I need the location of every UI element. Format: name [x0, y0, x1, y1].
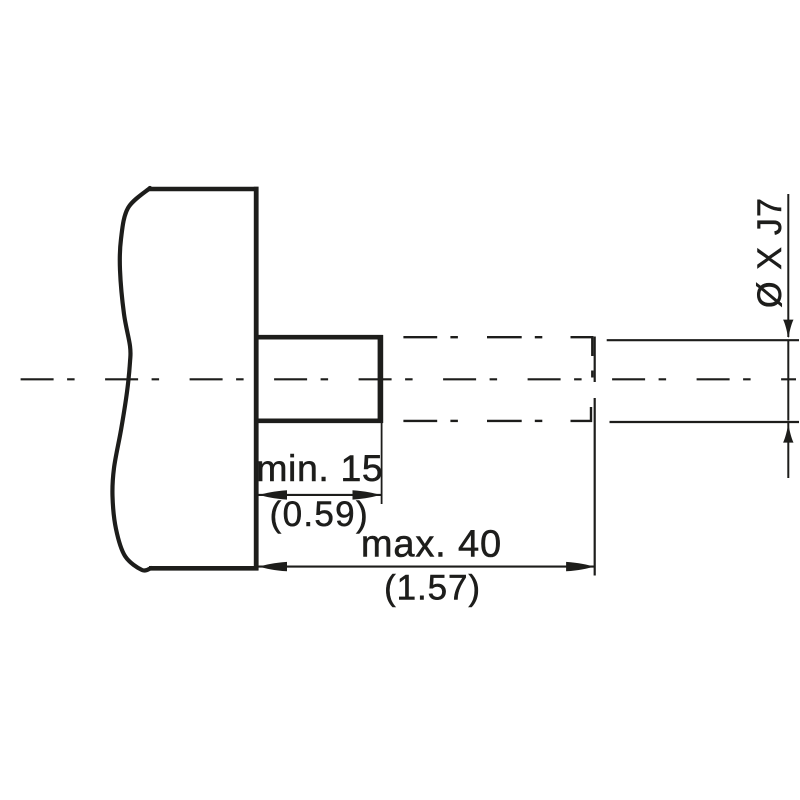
svg-text:(1.57): (1.57) [384, 569, 481, 608]
svg-text:Ø X J7: Ø X J7 [751, 197, 789, 308]
svg-text:max. 40: max. 40 [361, 524, 502, 566]
svg-text:min. 15: min. 15 [256, 447, 383, 489]
svg-text:(0.59): (0.59) [270, 495, 369, 534]
